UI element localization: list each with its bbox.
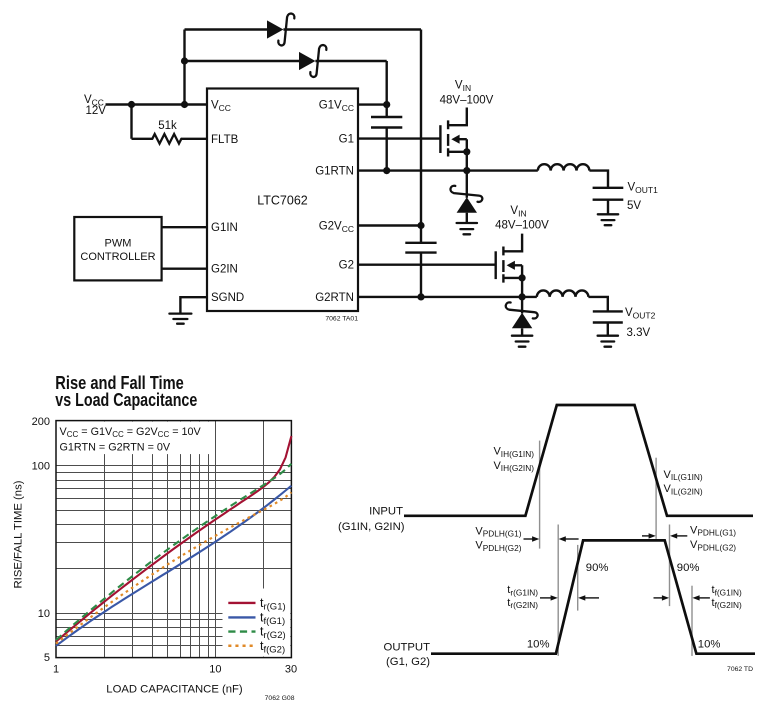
arrow tr right [585, 597, 600, 599]
wire G2VCC riser (down to cap C2) [420, 30, 422, 243]
junction Q2 source-body [519, 274, 526, 281]
junction diode D2 tap [181, 57, 188, 64]
junction Q2 switch node [519, 293, 526, 300]
svg-text:LTC7062: LTC7062 [257, 194, 308, 208]
inductor L2 [537, 290, 589, 296]
wire G2IN [162, 268, 207, 270]
arrow tf right [699, 597, 710, 599]
svg-text:(G1IN, G2IN): (G1IN, G2IN) [338, 521, 405, 533]
arrow VPDLH left [524, 538, 534, 540]
wire D2 anode [185, 60, 300, 62]
INPUT waveform [404, 405, 753, 516]
svg-text:(G1, G2): (G1, G2) [386, 656, 430, 668]
inductor L1 [538, 164, 590, 170]
svg-text:INPUT: INPUT [369, 506, 403, 518]
svg-text:PWM: PWM [105, 238, 132, 250]
diode D4 (schottky to ground, ch2) [506, 297, 538, 336]
diode D3 (schottky to ground, ch1) [450, 171, 482, 223]
capacitor C2 (G2VCC-G2RTN) [405, 243, 436, 253]
OUTPUT waveform [431, 540, 755, 653]
svg-text:G2IN: G2IN [211, 264, 238, 276]
curve tr(G1) red [56, 436, 291, 642]
svg-text:3.3V: 3.3V [627, 327, 651, 339]
wire C1 bottom to G1RTN [386, 128, 388, 171]
svg-text:48V–100V: 48V–100V [495, 219, 549, 231]
svg-text:10%: 10% [527, 638, 550, 650]
svg-text:OUTPUT: OUTPUT [384, 642, 431, 654]
wire D2 cathode to G1VCC riser [315, 60, 386, 62]
legend line tf(G2) [228, 645, 255, 648]
svg-text:5: 5 [44, 652, 50, 664]
svg-text:G1RTN = G2RTN = 0V: G1RTN = G2RTN = 0V [60, 442, 171, 454]
wire VCC rail [106, 103, 208, 105]
svg-text:G1: G1 [339, 134, 354, 146]
wire G1VCC riser (down to cap C1) [386, 61, 388, 117]
legend mask [223, 589, 291, 657]
svg-text:G2: G2 [339, 260, 354, 272]
svg-text:7062 TA01: 7062 TA01 [325, 316, 358, 323]
diode D2 [299, 52, 315, 70]
transistor Q1 (NMOS) [440, 108, 466, 171]
wire G1 pin to Q1 gate [358, 137, 440, 139]
curve tf(G2) orange dotted [56, 492, 291, 643]
marker line output fall 10% [691, 586, 693, 656]
wire C3 to ground [607, 200, 609, 214]
diode D1 [267, 20, 283, 38]
IC U1 LTC7062 body [207, 89, 358, 312]
junction G2VCC [417, 222, 424, 229]
junction Q1 switch node [463, 167, 470, 174]
junction VCC-resistor [128, 101, 135, 108]
wire G1VCC pin [358, 103, 387, 105]
ground (C4) [598, 336, 618, 347]
PWM controller box [74, 217, 161, 280]
junction C2-G2RTN [417, 293, 424, 300]
svg-text:90%: 90% [677, 562, 700, 574]
marker line output rise 10% [557, 525, 559, 656]
arrow VPDHL right [677, 535, 688, 537]
ground (C3) [598, 214, 618, 225]
svg-text:VCC = G1VCC = G2VCC = 10V: VCC = G1VCC = G2VCC = 10V [60, 426, 202, 439]
junction Q1 source-body [463, 148, 470, 155]
svg-text:30: 30 [285, 663, 297, 675]
junction VCC-diode riser [181, 101, 188, 108]
wire resistor to FLTB pin [181, 138, 207, 140]
curve tf(G1) blue [56, 486, 291, 646]
legend line tf(G1) [228, 616, 255, 618]
svg-text:5V: 5V [627, 200, 641, 212]
capacitor C1 (G1VCC-G1RTN) [371, 117, 402, 128]
svg-text:48V–100V: 48V–100V [440, 95, 494, 107]
svg-text:G1RTN: G1RTN [315, 166, 354, 178]
svg-text:1: 1 [53, 663, 59, 675]
svg-text:10: 10 [38, 608, 50, 620]
svg-text:7062 G08: 7062 G08 [265, 695, 295, 702]
wire G2 pin to Q2 gate [358, 264, 496, 266]
wire G2VCC pin [358, 224, 421, 226]
svg-text:FLTB: FLTB [211, 134, 239, 146]
svg-text:CONTROLLER: CONTROLLER [80, 251, 155, 263]
wire G1IN [162, 226, 207, 228]
chart frame [56, 421, 291, 658]
marker line output rise 90% [577, 545, 579, 611]
svg-text:vs Load Capacitance: vs Load Capacitance [55, 390, 197, 410]
arrow tf left [654, 597, 663, 599]
wire L2 to C4 [588, 297, 607, 312]
svg-text:SGND: SGND [211, 292, 244, 304]
arrow VPDHL left [642, 535, 650, 537]
svg-text:10: 10 [209, 663, 221, 675]
annotation mask [57, 422, 211, 455]
transistor Q2 (NMOS) [496, 234, 522, 297]
capacitor C3 (VOUT1) [593, 188, 624, 200]
arrow VPDLH right [565, 538, 579, 540]
ground (D4) [512, 336, 532, 347]
wire VCC to resistor [132, 105, 153, 139]
svg-text:7062 TD: 7062 TD [727, 666, 753, 673]
junction G1VCC [383, 101, 390, 108]
wire C2 bottom to G2RTN [420, 253, 422, 297]
wire G1RTN rail [358, 169, 538, 171]
legend line tr(G1) [228, 602, 255, 604]
arrow tr left [540, 597, 551, 599]
marker line input VIL crossing [655, 458, 657, 539]
chart gridlines vertical [105, 421, 264, 658]
ground (D3) [457, 223, 477, 234]
legend line tr(G2) [228, 630, 255, 632]
svg-text:RISE/FALL TIME (ns): RISE/FALL TIME (ns) [13, 480, 25, 588]
capacitor C4 (VOUT2) [593, 311, 623, 322]
resistor R1 51k [152, 134, 181, 144]
wire SGND [180, 297, 207, 313]
wire G2RTN rail [358, 296, 537, 298]
ground (SGND) [169, 314, 191, 324]
svg-text:12V: 12V [86, 105, 107, 117]
svg-text:51k: 51k [158, 120, 177, 132]
svg-text:100: 100 [32, 461, 50, 473]
chart gridlines horizontal [56, 466, 291, 646]
svg-text:G2RTN: G2RTN [315, 292, 354, 304]
svg-text:90%: 90% [586, 562, 609, 574]
curve tr(G2) green dashed [56, 464, 291, 640]
wire C4 to ground [607, 323, 609, 336]
wire D1 anode [185, 28, 268, 30]
junction C1-G1RTN [383, 167, 390, 174]
marker line output fall 90% [669, 525, 671, 607]
svg-text:LOAD CAPACITANCE (nF): LOAD CAPACITANCE (nF) [106, 683, 243, 695]
svg-text:10%: 10% [698, 638, 721, 650]
wire diode riser [183, 30, 185, 105]
wire L1 to C3 [589, 171, 608, 188]
marker line input VIH crossing [539, 441, 541, 549]
svg-text:200: 200 [32, 416, 50, 428]
svg-text:G1IN: G1IN [211, 222, 238, 234]
wire D1 cathode to G2VCC riser [283, 28, 421, 30]
